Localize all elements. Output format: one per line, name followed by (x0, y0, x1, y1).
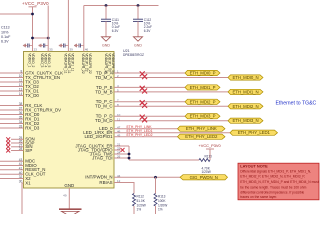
svg-text:VDDIO_1: VDDIO_1 (28, 53, 32, 67)
svg-text:6.3V: 6.3V (144, 29, 151, 33)
svg-text:13: 13 (19, 88, 23, 92)
net flag ETH_MDI1_N (228, 89, 263, 94)
designator U21 part DP83867IRGZ (123, 49, 144, 57)
svg-text:VDDIO_5: VDDIO_5 (47, 53, 51, 67)
svg-text:GIG_PWDN_N: GIG_PWDN_N (190, 175, 218, 180)
pin TD_M_C (95, 103, 228, 109)
svg-text:GND: GND (64, 183, 74, 188)
pin SIN (no connect) (6, 143, 32, 149)
svg-text:6.3V: 6.3V (112, 29, 119, 33)
svg-text:30: 30 (19, 180, 23, 184)
wire JTAG tie vertical (128, 146, 130, 160)
svg-text:34: 34 (19, 120, 23, 124)
wire W2 (47, 6, 49, 52)
pin TX_D1 (0, 88, 39, 94)
svg-text:RBIAS: RBIAS (99, 180, 112, 185)
svg-text:6.3V: 6.3V (1, 40, 9, 44)
ground arrow below C111 (101, 37, 110, 48)
top VDD pin names (vertical) (28, 53, 116, 74)
diff pair marker D (140, 115, 147, 123)
svg-text:X1: X1 (25, 180, 31, 185)
pin JTAG_TDI (92, 155, 129, 161)
svg-text:10: 10 (19, 74, 23, 78)
wire W3 (67, 0, 69, 52)
wire W1 vcc drop to VDDIO pin (32, 7, 34, 52)
svg-text:8: 8 (21, 70, 23, 74)
resistor R110 (199, 154, 212, 177)
svg-text:VDDIO_2: VDDIO_2 (31, 53, 35, 67)
net flag GIG_PWDN_N (180, 175, 228, 180)
pin RX_CTRL/RX_DV (0, 107, 61, 113)
node JTAG junction TMS (128, 153, 131, 156)
pin JTAG_CLK/TX_ER (75, 143, 129, 149)
power port +VCC_P3V0 (R110 pullup) (199, 143, 222, 149)
wire W4 (83, 6, 85, 52)
svg-text:+VCC_P3V0: +VCC_P3V0 (199, 143, 222, 148)
svg-text:0.1uF: 0.1uF (1, 35, 11, 39)
node junction R113 top (154, 176, 157, 179)
svg-text:49: 49 (63, 194, 67, 198)
pin RX_D1 (0, 116, 40, 122)
svg-text:VDDA2P5_22: VDDA2P5_22 (88, 53, 92, 74)
svg-text:35: 35 (49, 48, 53, 52)
diff pair marker C (140, 100, 147, 108)
capacitor bypass at W1 with ground (29, 45, 32, 47)
svg-text:39: 39 (70, 48, 74, 52)
svg-text:11: 11 (19, 79, 23, 83)
pin TX_D2 (0, 83, 39, 89)
node junction W1 y38 (31, 37, 34, 40)
pin TD_P_D (96, 113, 185, 119)
svg-text:ETH_MDI1_N: ETH_MDI1_N (232, 89, 258, 94)
diff pair marker B (140, 86, 147, 94)
svg-text:32: 32 (19, 175, 23, 179)
svg-text:SIP: SIP (25, 148, 32, 153)
net flag ETH_MDI3_P (185, 114, 220, 119)
svg-text:10%: 10% (1, 30, 9, 34)
capacitor bypass at W4 with ground (80, 45, 83, 47)
pin X1 (19, 180, 31, 214)
svg-text:TX_D0: TX_D0 (25, 93, 39, 98)
svg-text:ETH_MDI3_N: ETH_MDI3_N (232, 118, 258, 123)
net flag ETH_MDI3_N (228, 118, 263, 123)
pin TX_D0 (0, 92, 39, 98)
net flag ETH_MDI2_N (228, 104, 263, 109)
svg-text:VDDA2P5_11: VDDA2P5_11 (67, 53, 71, 73)
svg-text:41: 41 (19, 166, 23, 170)
svg-text:ETH_MDI3_P: ETH_MDI3_P (190, 114, 216, 119)
svg-text:TD_M_D: TD_M_D (95, 118, 113, 123)
svg-text:VDD1P1_22: VDD1P1_22 (85, 53, 89, 71)
wire R110 to vcc (209, 149, 211, 160)
net flag ETH_MDI2_P (185, 99, 220, 104)
wire horizontal to left edge (0, 13, 33, 15)
svg-text:U21: U21 (123, 49, 130, 53)
capacitor bypass at W3 with ground (65, 45, 68, 47)
svg-text:ETH_PHY_LINK: ETH_PHY_LINK (186, 126, 217, 131)
svg-text:Differential signals ETH_MDI1_: Differential signals ETH_MDI1_P, ETH_MDI… (240, 169, 311, 173)
pin RX_D0 (0, 111, 40, 117)
pin SOP (no connect) (6, 140, 34, 146)
svg-text:36: 36 (19, 111, 23, 115)
pin TX_D3 (0, 79, 39, 85)
svg-text:traces on the same layer.: traces on the same layer. (240, 195, 277, 199)
svg-text:VDD1P1_33: VDD1P1_33 (108, 53, 112, 71)
svg-text:Ethernet to TG&C: Ethernet to TG&C (276, 100, 317, 106)
svg-text:ETH_PHY_LED2: ETH_PHY_LED2 (185, 134, 218, 139)
svg-text:14: 14 (19, 92, 23, 96)
pin RX_D2 (0, 120, 40, 126)
svg-text:ETH_MDI2_P: ETH_MDI2_P (190, 99, 216, 104)
pin TX_CTRL/TX_EN (0, 74, 60, 80)
pin JTAG_TDO/GPIO (no connect) (78, 147, 125, 153)
net flag ETH_PHY_LED1 (230, 130, 278, 135)
svg-text:JTAG_TDI: JTAG_TDI (92, 155, 112, 160)
svg-text:1%: 1% (158, 208, 163, 212)
diff pair marker A (140, 71, 147, 79)
capacitor C111 (101, 4, 120, 37)
svg-text:GND: GND (134, 44, 142, 48)
pin RX_CLK (0, 102, 42, 108)
pin MDIO (0, 162, 37, 168)
svg-text:ETH_MDI1_P: ETH_MDI1_P (190, 85, 216, 90)
svg-text:ETH_MDI0_P: ETH_MDI0_P (190, 71, 216, 76)
pin GND (49) (63, 183, 74, 209)
pin SON (no connect) (6, 136, 35, 142)
pin RBIAS (99, 179, 134, 193)
svg-text:LED_2/GPIO1: LED_2/GPIO1 (85, 134, 114, 139)
pin TD_M_B (95, 89, 228, 95)
svg-text:R110: R110 (205, 154, 213, 158)
svg-text:1%: 1% (137, 208, 142, 212)
pin MDC (0, 158, 35, 164)
svg-text:+VCC_P3V0: +VCC_P3V0 (22, 1, 49, 6)
svg-text:GND: GND (102, 44, 110, 48)
svg-text:ETH_MDI3_N, ETH_MDI4_P and ETH: ETH_MDI3_N, ETH_MDI4_P and ETH_MDI4_N mu… (240, 180, 319, 184)
svg-text:46: 46 (85, 48, 89, 52)
svg-text:VDDIO_3: VDDIO_3 (40, 53, 44, 67)
svg-text:TD_M_A: TD_M_A (95, 75, 112, 80)
svg-text:23: 23 (34, 48, 38, 52)
pin GTX_CLK/TX_CLK (0, 70, 63, 76)
pin CLK_OUT (0, 171, 46, 177)
resistor R113 (154, 177, 167, 214)
layout note box (238, 163, 319, 200)
pin TD_P_C (96, 98, 185, 104)
capacitor C112 (133, 4, 152, 37)
capacitor bypass at W2 with ground (45, 45, 48, 47)
svg-text:28: 28 (19, 147, 23, 151)
ground arrow below C112 (133, 37, 142, 48)
IC U21 DP83867 chip body (24, 52, 115, 189)
pin LED_1/RX_ER (83, 129, 230, 135)
svg-text:TD_M_C: TD_M_C (95, 104, 113, 109)
node JTAG junction TDI (128, 157, 131, 160)
svg-text:VDDA1P8_11: VDDA1P8_11 (64, 53, 68, 73)
wire JTAG strap to R110 (129, 159, 199, 161)
svg-text:VDDA1P8_22: VDDA1P8_22 (81, 53, 85, 74)
wire vcc rail top (84, 5, 159, 7)
net flag ETH_MDI0_P (185, 70, 220, 75)
pin LED_2/GPIO1 (85, 133, 178, 139)
pin TD_P_A (96, 70, 185, 76)
pin RESET_N (0, 166, 45, 172)
svg-text:RX_D3: RX_D3 (25, 125, 40, 130)
node junction W2 y38 (47, 37, 50, 40)
svg-text:DP83867IRGZ: DP83867IRGZ (123, 53, 144, 57)
pin SIP (no connect) (6, 147, 32, 153)
svg-text:ETH_PHY_LED2: ETH_PHY_LED2 (127, 133, 153, 137)
svg-text:LAYOUT NOTE: LAYOUT NOTE (240, 164, 268, 169)
svg-text:VDD1P1_11: VDD1P1_11 (71, 53, 75, 71)
svg-text:C113: C113 (1, 26, 10, 30)
pin INT/PWDN_N (85, 174, 180, 180)
svg-text:37: 37 (19, 107, 23, 111)
svg-text:12: 12 (19, 83, 23, 87)
svg-text:differential controlled impeda: differential controlled impedance. If po… (240, 191, 304, 195)
pin X2 (0, 175, 31, 181)
pin TD_M_D (95, 117, 228, 123)
svg-text:ETH_MDI0_N: ETH_MDI0_N (232, 75, 258, 80)
net flag ETH_PHY_LED2 (178, 134, 226, 139)
ground symbol chip (59, 209, 82, 216)
pin LED_0 (99, 125, 177, 131)
svg-text:ETH_MDI2_N: ETH_MDI2_N (232, 104, 258, 109)
pin TD_P_B (96, 84, 185, 90)
net flag ETH_MDI1_P (185, 85, 220, 90)
pin RX_D3 (0, 125, 40, 131)
pin JTAG_TMS (90, 151, 129, 157)
svg-text:38: 38 (19, 102, 23, 106)
resistor R112 (133, 194, 146, 215)
svg-text:35: 35 (19, 116, 23, 120)
svg-text:33: 33 (19, 125, 23, 129)
node junction W1 y14 (31, 13, 34, 16)
svg-text:be the same length. Traces mu: be the same length. Traces must be 100 o… (240, 185, 306, 189)
pin TD_M_A (95, 74, 228, 80)
svg-text:VDDIO_4: VDDIO_4 (44, 53, 48, 67)
svg-text:ETH_PHY_LED1: ETH_PHY_LED1 (238, 130, 271, 135)
net flag ETH_MDI0_N (228, 75, 263, 80)
wire jumper W1-W2 (33, 37, 49, 39)
svg-text:TD_M_B: TD_M_B (95, 89, 112, 94)
net flag ETH_PHY_LINK (178, 126, 226, 131)
svg-text:ETH_MDI2_P, ETH_MDI2_N, ETH_MD: ETH_MDI2_P, ETH_MDI2_N, ETH_MDI3_P, (240, 175, 305, 179)
